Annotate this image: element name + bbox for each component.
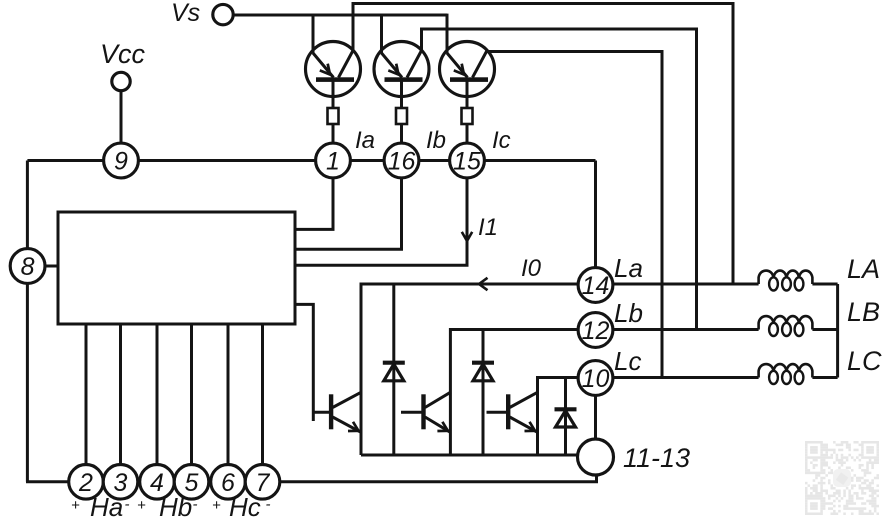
inductor LB <box>759 316 813 329</box>
wire pin 10 line to Q6 collector <box>538 378 579 456</box>
wire IC to pin 7 <box>261 324 264 465</box>
pin 15 <box>450 143 485 178</box>
wire IC to opto Q4 base <box>295 304 313 421</box>
opto transistor Q4 <box>329 394 333 429</box>
wire pin 8 to IC <box>45 265 59 268</box>
wire IC to pin 5 <box>190 324 193 465</box>
terminal Vs <box>213 4 233 24</box>
wire opto common bottom <box>361 454 578 457</box>
pin 9 <box>104 143 139 178</box>
wire Q2 base to pin 16 <box>400 82 403 145</box>
pin 7 <box>245 465 280 500</box>
svg-text:Vs: Vs <box>171 0 200 27</box>
wire Vs bus <box>234 14 448 17</box>
svg-text:10: 10 <box>582 365 610 393</box>
wire Vcc to pin 9 <box>120 91 123 145</box>
svg-text:LA: LA <box>847 254 880 284</box>
wire diode D3 column <box>564 378 567 456</box>
svg-text:LB: LB <box>847 297 880 327</box>
svg-text:Ia: Ia <box>355 127 375 154</box>
svg-text:16: 16 <box>388 148 416 176</box>
IC U1 <box>58 212 295 324</box>
svg-text:1: 1 <box>326 148 340 176</box>
svg-text:La: La <box>614 253 643 283</box>
box pin 16 <box>396 108 407 124</box>
wire drop Vs to Q1 emitter <box>312 14 315 54</box>
svg-text:LC: LC <box>847 346 882 376</box>
svg-text:Hc: Hc <box>229 492 261 522</box>
svg-text:Lc: Lc <box>614 346 641 376</box>
pin 2 <box>69 465 104 500</box>
pin 6 <box>211 465 246 500</box>
svg-text:-: - <box>125 496 130 513</box>
pin 10 <box>578 361 613 396</box>
svg-text:+: + <box>137 497 146 514</box>
wire pin 14 to inductor LA <box>613 283 759 286</box>
pin 4 <box>140 465 175 500</box>
wire pin 1 to IC <box>295 177 333 229</box>
pin 3 <box>103 465 138 500</box>
pin 8 <box>10 249 45 284</box>
opto transistor Q6 <box>506 394 510 429</box>
pin 5 <box>174 465 209 500</box>
wire Q1 base to pin 1 <box>332 82 335 145</box>
wire pin 15 to IC (I1) <box>295 177 467 265</box>
wire rail down to pin 14 <box>594 161 597 271</box>
svg-text:Vcc: Vcc <box>100 39 146 69</box>
svg-text:12: 12 <box>582 317 610 345</box>
transistor Q3 <box>440 42 495 97</box>
svg-text:8: 8 <box>21 253 35 281</box>
svg-text:Ha: Ha <box>90 492 123 522</box>
opto transistor Q5 <box>421 394 425 429</box>
svg-text:14: 14 <box>582 272 610 300</box>
pin 12 <box>578 313 613 348</box>
wire rail pin9 pin1 pin16 pin15 <box>27 159 595 162</box>
pin 16 <box>384 143 419 178</box>
wire Q2 collector to LB line <box>422 29 697 330</box>
box pin 1 <box>328 108 339 124</box>
svg-text:Ic: Ic <box>492 127 511 154</box>
wire bottom rail to pin 2 <box>26 480 69 483</box>
arrow I0 <box>479 278 488 290</box>
wire Q3 base to pin 15 <box>466 82 469 145</box>
svg-text:I0: I0 <box>521 255 542 282</box>
wire diode D2 column <box>482 330 485 456</box>
transistor Q2 <box>374 42 429 97</box>
diode D3 <box>555 407 577 411</box>
wire pin 12 to inductor LB <box>613 328 759 331</box>
wire drop Vs to Q3 emitter <box>446 14 449 54</box>
wire pin 16 to IC <box>295 177 402 249</box>
watermark QR code <box>805 441 879 515</box>
wire pin 10 to inductor LC <box>613 376 759 379</box>
inductor LC <box>759 364 813 377</box>
svg-text:Ib: Ib <box>426 127 446 154</box>
svg-text:15: 15 <box>453 148 481 176</box>
wire Q1 collector to LA line <box>353 4 733 285</box>
wire pin 10 to node 11-13 <box>594 378 597 440</box>
wire I0 line pin 14 to left column <box>361 284 578 455</box>
svg-text:9: 9 <box>114 148 128 176</box>
svg-text:+: + <box>71 497 80 514</box>
wire IC to pin 3 <box>119 324 122 465</box>
wire inductor LB to bus <box>812 328 837 331</box>
wire IC to pin 2 <box>85 324 88 465</box>
wire right bus <box>836 284 839 378</box>
svg-text:11-13: 11-13 <box>623 443 690 473</box>
wire pins row to node 11-13 bottom <box>279 474 597 482</box>
svg-text:-: - <box>266 496 271 513</box>
svg-text:-: - <box>193 496 198 513</box>
wire Q3 collector to LC line <box>487 51 662 378</box>
svg-text:Hb: Hb <box>159 492 192 522</box>
inductor LA <box>759 271 813 284</box>
diode D2 <box>472 361 494 365</box>
svg-text:I1: I1 <box>478 214 498 241</box>
transistor Q1 <box>306 42 361 97</box>
terminal Vcc <box>112 72 130 90</box>
arrow I1 <box>462 232 472 241</box>
wire inductor LA to bus <box>812 283 837 286</box>
wire pin 8 column <box>26 161 29 482</box>
node 11-13 circle <box>578 439 614 475</box>
svg-text:Lb: Lb <box>614 298 643 328</box>
pin 14 <box>578 268 613 303</box>
svg-text:+: + <box>212 497 221 514</box>
wire diode D1 column <box>392 284 395 455</box>
wire IC to pin 4 <box>156 324 159 465</box>
pin 1 <box>316 143 351 178</box>
diode D1 <box>383 361 405 365</box>
box pin 15 <box>462 108 473 124</box>
wire drop Vs to Q2 emitter <box>380 14 383 54</box>
wire pin 12 line to Q5 collector <box>450 330 578 456</box>
wire inductor LC to bus <box>812 376 837 379</box>
wire IC to pin 6 <box>227 324 230 465</box>
